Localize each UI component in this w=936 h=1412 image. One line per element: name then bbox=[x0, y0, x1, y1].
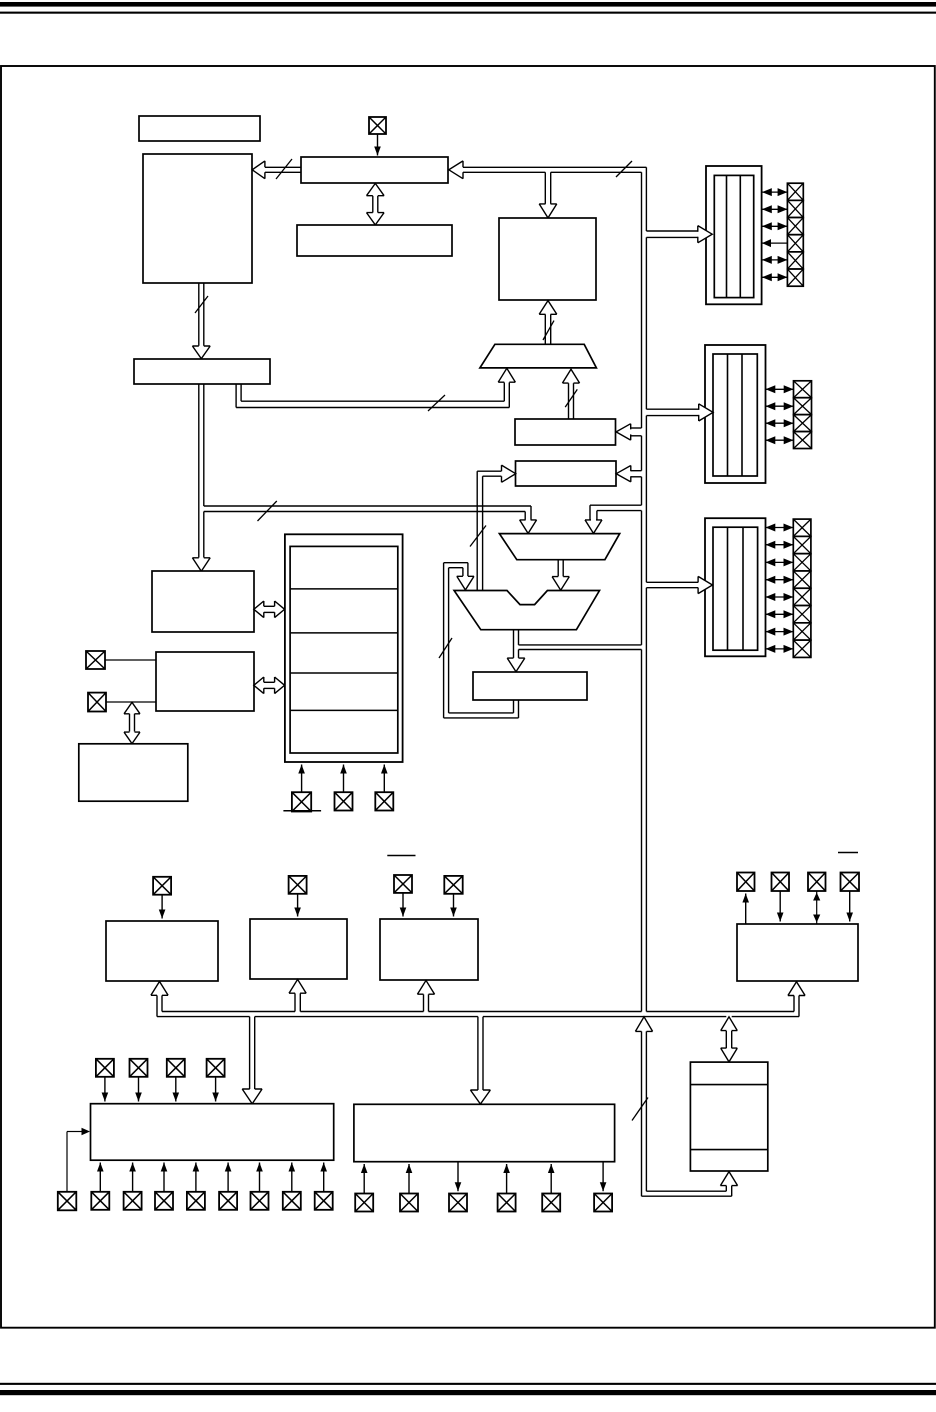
page footer thick rule bbox=[0, 1390, 936, 1395]
block: Timer0 bbox=[106, 921, 218, 981]
bus: branch up into Timer1 bbox=[294, 993, 296, 1011]
pin: stack/PC input pin bbox=[369, 117, 386, 134]
overbar for CCP pin label bbox=[387, 855, 415, 857]
wire: TX pin arrow (out) bbox=[745, 894, 747, 925]
bus: program memory to instruction register bbox=[198, 283, 200, 346]
bus-width slash on literal bus bbox=[258, 501, 277, 521]
overbar for MCLR label bbox=[283, 810, 321, 812]
bus: branch down into RAM file registers bbox=[544, 172, 546, 204]
wire: side pin elbow into PORTD bbox=[66, 1132, 68, 1192]
block: RAM file registers bbox=[499, 218, 596, 300]
pin: CCP2 bbox=[444, 876, 462, 894]
bus-width slash on RAM address bus bbox=[543, 321, 554, 340]
bus: literal - instruction register branch to mux left input bbox=[204, 505, 531, 507]
wire: CCP1 to block bbox=[402, 893, 404, 917]
wire: T1CKI to Timer1 bbox=[297, 894, 299, 917]
block: PORTC (port block with drivers) bbox=[705, 518, 766, 656]
bus: branch up into USART block bbox=[793, 996, 795, 1012]
pin: serial clock (bidirectional) bbox=[808, 873, 826, 892]
bus-width slash on direct address bus bbox=[428, 395, 445, 411]
bus: program counter to program memory bbox=[265, 166, 301, 168]
block: PORTD bbox=[91, 1104, 334, 1161]
label box (figure title block) bbox=[139, 116, 260, 141]
block: timing generation bbox=[156, 652, 254, 711]
block: PORTA (port block with drivers) bbox=[706, 166, 762, 304]
bus-width slash on program bus bbox=[195, 296, 208, 313]
bus: timing generation to stack (bidirectional) bbox=[264, 681, 276, 683]
bus: branch down into PORTE bbox=[477, 1017, 479, 1091]
pins: PORTC pin pads RC0-RC7 bbox=[793, 519, 811, 536]
pin: serial data bbox=[841, 873, 860, 892]
bus-width slash on indirect address bus bbox=[565, 389, 577, 407]
page header thin rule bbox=[0, 12, 936, 14]
bus: data bus branch to STATUS reg bbox=[631, 470, 642, 472]
block: W reg bbox=[473, 672, 587, 700]
bus-width slash on top horizontal bus bbox=[616, 161, 632, 177]
wire: serial data arrow bbox=[849, 891, 851, 922]
wires: PORTD data pin arrows bbox=[99, 1163, 101, 1192]
block: USART / serial port bbox=[737, 924, 858, 981]
wire: pin to program counter bbox=[377, 134, 379, 156]
overbar for serial pin label bbox=[838, 852, 858, 854]
wire: RX pin arrow (in) bbox=[779, 891, 781, 922]
block: program memory bbox=[143, 154, 252, 283]
bus: ALU output branch to data bus bbox=[519, 644, 642, 646]
bus: data bus branch to PORTC bbox=[646, 581, 698, 583]
bus: FSR reg to RAM addr mux bbox=[568, 383, 570, 419]
bus: data bus branch to FSR reg bbox=[631, 427, 642, 429]
pin: VDD bbox=[335, 792, 353, 810]
bus: instruction register to instruction decode (vertical) bbox=[198, 384, 200, 558]
wires: PORTE pin arrows bbox=[363, 1164, 365, 1194]
wire: VSS to control stack bbox=[383, 765, 385, 793]
bus: data bus branch to mux right input bbox=[590, 504, 642, 506]
pin: OSC1/CLKIN bbox=[86, 651, 105, 669]
block: Timer2 / CCP bbox=[380, 919, 478, 980]
wires: PORTD control pin arrows bbox=[104, 1077, 106, 1102]
wires: PORTA pad arrows bbox=[762, 191, 787, 193]
block: FSR reg bbox=[515, 419, 616, 445]
pin: T0CKI bbox=[153, 877, 171, 895]
pin: VSS bbox=[375, 792, 393, 810]
bus-width slash on program-memory bus bbox=[276, 159, 292, 179]
bus: mux output to ALU bbox=[557, 560, 559, 577]
pin: CCP1 bbox=[394, 875, 412, 893]
pin: MCLR bbox=[292, 792, 311, 811]
pin: T1CKI bbox=[289, 876, 307, 894]
pin: TX bbox=[737, 873, 755, 892]
wire: MCLR to control stack bbox=[301, 765, 303, 793]
bus: data bus branch to PORTB bbox=[646, 408, 698, 410]
pins: PORTB pin pads bbox=[794, 381, 812, 398]
block: program counter bbox=[301, 157, 448, 183]
bus: data bus branch to PORTA bbox=[646, 230, 697, 232]
block: control-function stack (inner rows) bbox=[290, 546, 398, 753]
block: mux (trapezoid above ALU) bbox=[499, 534, 619, 560]
bus: W reg feedback loop to ALU left input bbox=[513, 700, 515, 713]
block: instruction register bbox=[134, 359, 270, 384]
block: RAM addr mux (trapezoid) bbox=[480, 344, 597, 368]
bus: ALU output down to W reg bbox=[513, 630, 515, 658]
pin: OSC2/CLKOUT bbox=[88, 693, 106, 712]
bus: junction arrow from PORTD/E loop into data bus bbox=[635, 1017, 652, 1032]
bus: timing to WDT/POR block (bidirectional) bbox=[129, 714, 131, 732]
bus-width slash on STATUS bus bbox=[470, 526, 486, 547]
bus: vertical run from data bus down to bottom-right loop bbox=[641, 1031, 643, 1196]
page header thick rule bbox=[0, 2, 936, 7]
pins: PORTA pin pads RA0-RA5 bbox=[787, 183, 803, 200]
pin: PORTD side control pin bbox=[58, 1192, 77, 1211]
bus: branch down into PORTD bbox=[249, 1017, 251, 1090]
block: ALU (notched trapezoid) bbox=[454, 591, 599, 630]
bus-width slash on W feedback bus bbox=[439, 638, 452, 658]
bus: branch up into Timer0 bbox=[156, 995, 158, 1016]
wires: PORTC pad arrows bbox=[766, 527, 794, 529]
wire: VDD to control stack bbox=[343, 765, 345, 793]
bus: bottom-right loop horizontal into parallel slave port bbox=[646, 1190, 726, 1192]
wire: serial clock arrows bbox=[816, 891, 818, 924]
bus: program counter to 8-level stack (bidirectional) bbox=[372, 196, 374, 213]
bus: branch up into Timer2/CCP bbox=[423, 994, 425, 1011]
bus: RAM addr mux to RAM file registers bbox=[544, 314, 546, 344]
bus: data bus to parallel-slave-port block (bidirectional) bbox=[725, 1031, 727, 1048]
pins: PORTD data pins RD0-RD7 bbox=[91, 1192, 109, 1210]
wire: OSC1 to timing generation bbox=[105, 659, 156, 661]
page footer thin rule bbox=[0, 1383, 936, 1385]
pins: PORTE pins bbox=[355, 1194, 373, 1212]
bus: main vertical data bus (right side) bbox=[641, 172, 643, 428]
wire: OSC2 to timing generation bbox=[106, 701, 156, 703]
block: 8-level stack bbox=[297, 225, 452, 256]
block: power-up timer / watchdog / POR bbox=[79, 744, 188, 801]
bus: decode to register stack (bidirectional) bbox=[264, 605, 276, 607]
bus: direct address - instruction register to RAM addr mux bbox=[240, 384, 242, 401]
wire: T0CKI to Timer0 bbox=[161, 895, 163, 919]
block: PORTB (port block with drivers) bbox=[705, 345, 766, 483]
wire: CCP2 to block bbox=[453, 894, 455, 917]
pin: RX bbox=[772, 873, 790, 892]
wires: PORTB pad arrows bbox=[766, 388, 794, 390]
bus: STATUS reg output to ALU (left loop) bbox=[477, 470, 501, 472]
block: instruction decode and control bbox=[152, 571, 254, 632]
block: STATUS reg bbox=[516, 461, 617, 486]
block: PORTE bbox=[354, 1104, 615, 1161]
block: parallel slave port latch bbox=[690, 1062, 767, 1171]
block: Timer1 bbox=[250, 919, 347, 979]
bus: program counter to data bus (top horizontal) bbox=[463, 166, 646, 168]
bus-width slash on bottom-right loop bbox=[632, 1098, 648, 1121]
pins: PORTD control pins (top row) bbox=[96, 1059, 114, 1077]
bus: bottom horizontal data bus bbox=[162, 1011, 295, 1013]
block: control-function stack (outer) bbox=[285, 534, 403, 762]
